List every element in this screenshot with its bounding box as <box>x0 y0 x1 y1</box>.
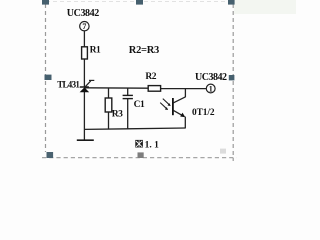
wire: C1 bottom lead <box>127 99 129 129</box>
svg-text:R2: R2 <box>145 72 156 82</box>
handle right-middle <box>229 75 235 80</box>
wire: C1 top lead <box>127 88 129 95</box>
resistor R3 <box>105 98 112 112</box>
svg-text:0T1/2: 0T1/2 <box>192 108 215 118</box>
svg-text:UC3842: UC3842 <box>195 72 227 83</box>
emitter diagonal <box>173 110 184 116</box>
collector diagonal <box>173 97 185 103</box>
svg-text:1. 1: 1. 1 <box>145 140 160 150</box>
figure caption 图1.1 <box>135 140 159 151</box>
hanzi 图 glyph (drawn) <box>135 140 143 148</box>
handle top-middle <box>136 0 143 5</box>
TL431 U2 <box>80 80 95 92</box>
svg-text:1: 1 <box>209 85 213 94</box>
ground <box>77 139 94 141</box>
tint band top-right <box>234 0 296 14</box>
reference tick <box>89 79 94 81</box>
wire: R1 to TL431 cathode <box>83 59 85 87</box>
wire: opto collector vertical <box>184 89 186 97</box>
svg-text:R2=R3: R2=R3 <box>129 45 159 56</box>
handle left-middle <box>45 75 52 80</box>
svg-text:TL431: TL431 <box>57 79 80 89</box>
light arrow 2 <box>160 103 167 109</box>
selection border right <box>232 4 234 161</box>
triangle <box>80 87 90 92</box>
handle bottom-right (faint) <box>220 149 226 154</box>
selection border top <box>46 1 233 3</box>
handle bottom-left <box>47 152 54 158</box>
pin 1 circle of UC3842 <box>206 84 215 93</box>
emitter vertical <box>184 117 186 129</box>
emitter arrowhead <box>180 113 185 118</box>
resistor R1 <box>82 47 88 59</box>
svg-text:C1: C1 <box>134 100 145 110</box>
selection border left <box>45 4 47 152</box>
base bar <box>172 98 174 115</box>
pin 7 circle of UC3842 <box>80 22 89 31</box>
optocoupler phototransistor OT1/2 <box>160 97 185 129</box>
svg-text:UC3842: UC3842 <box>67 8 99 19</box>
svg-text:R3: R3 <box>112 109 123 119</box>
wire: top bus TL431 to R2 left <box>84 87 148 89</box>
wire: R2 right to pin1 circle <box>161 88 207 90</box>
selection border bottom <box>42 157 237 159</box>
capacitor C1 <box>123 95 133 98</box>
wire: pin7 circle to R1 <box>83 31 85 47</box>
svg-text:R1: R1 <box>90 45 101 55</box>
handle top-right <box>228 0 235 5</box>
svg-text:7: 7 <box>82 22 86 31</box>
resistor R2 <box>148 86 160 92</box>
cathode bar <box>80 86 89 88</box>
wire: R3 bottom lead <box>108 112 110 129</box>
wire: R3 top lead <box>108 88 110 98</box>
handle top-left <box>42 0 49 5</box>
wire: TL431 anode down to ground <box>83 92 85 140</box>
light arrow 1 <box>163 99 170 105</box>
wire: bottom bus <box>84 128 185 129</box>
handle bottom-middle <box>138 152 144 158</box>
reference diagonal <box>85 81 91 87</box>
